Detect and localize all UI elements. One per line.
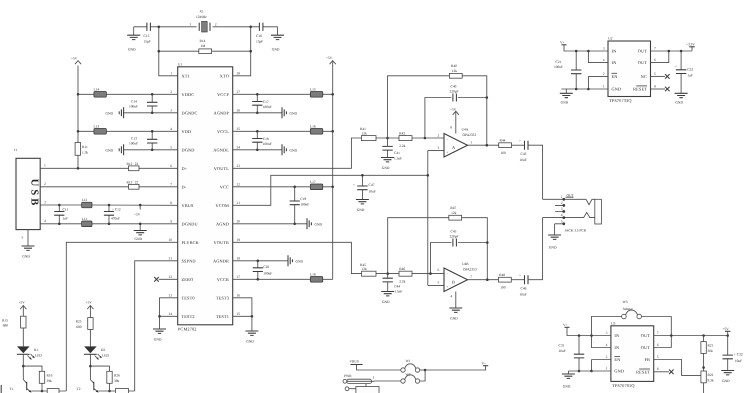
svg-text:R44: R44 [500,139,506,143]
svg-text:D1: D1 [34,348,39,352]
capacitor C19 100nF [290,186,310,226]
svg-text:12k: 12k [451,211,457,215]
svg-text:C46: C46 [521,287,527,291]
svg-text:7: 7 [654,47,656,51]
svg-text:+5V: +5V [326,56,333,60]
svg-text:VDDC: VDDC [182,92,195,97]
power +5V flag (U3 out) [723,327,731,336]
inductor L18 ferrite [233,272,333,282]
svg-text:GND: GND [246,340,254,344]
svg-text:U1: U1 [178,62,183,66]
svg-text:C19: C19 [300,197,306,201]
ground (C15) [127,27,140,52]
svg-text:B: B [452,279,455,284]
svg-text:10uF: 10uF [520,292,527,296]
svg-text:RESET: RESET [636,370,650,375]
svg-text:15: 15 [237,312,241,316]
resistor R25 680 [76,318,93,347]
svg-text:2: 2 [603,72,605,76]
ground (C16) [271,27,284,52]
capacitor C44 1.5nF [383,274,403,294]
node D+ pull-up junction [77,167,80,170]
node LED1/R16 junction [22,365,25,368]
wire USB GND line (pin4) [40,223,178,225]
capacitor C13 100nF [129,130,157,151]
svg-text:7: 7 [170,182,172,186]
svg-text:100nF: 100nF [263,272,272,276]
resistor R13 22 [127,181,140,190]
svg-text:12: 12 [168,275,172,279]
svg-text:J1: J1 [14,148,17,152]
svg-text:C44: C44 [394,284,400,288]
svg-text:EN: EN [612,74,618,79]
wire U2 second IN [587,50,608,63]
svg-text:R14: R14 [200,39,206,43]
svg-text:C14: C14 [131,99,137,103]
resistor R47 12k feedback [388,206,488,274]
svg-text:680: 680 [3,324,9,328]
svg-text:1.5k: 1.5k [82,151,88,155]
svg-text:R25: R25 [76,320,82,324]
svg-text:1.5nF: 1.5nF [394,290,402,294]
wire to V+ flag [425,366,486,370]
svg-text:OPA2353: OPA2353 [463,133,477,137]
crystal X1 [190,10,217,33]
ground (USB shield pin5) [22,230,35,259]
svg-text:5: 5 [654,72,656,76]
ground (U2/C21) [560,89,573,104]
svg-text:OUT: OUT [638,49,648,54]
jumper W1 [401,359,425,372]
svg-text:C22: C22 [687,68,693,72]
ground (AGNDR sideways) [233,255,304,266]
svg-text:R16: R16 [47,373,53,377]
svg-text:OUT: OUT [641,345,651,350]
svg-text:OUT: OUT [567,193,575,197]
svg-text:C45: C45 [451,230,457,234]
svg-text:AGNDP: AGNDP [213,111,229,116]
capacitor C16 [256,23,263,44]
svg-text:L12: L12 [82,198,88,202]
ground (TEST3/TEST1) [245,331,258,344]
svg-text:GND: GND [106,149,114,153]
node inverting input A [424,137,427,140]
svg-text:FB: FB [644,357,650,362]
svg-text:100nF: 100nF [129,142,138,146]
svg-text:NC: NC [641,74,647,79]
svg-text:GND: GND [128,48,136,52]
svg-text:TEST2: TEST2 [182,314,195,319]
svg-text:PCM2702: PCM2702 [178,327,197,332]
svg-text:6: 6 [654,58,656,62]
svg-text:VBUS: VBUS [182,203,195,208]
svg-text:AGNDR: AGNDR [213,259,229,264]
connector jack 3.5mm [543,193,602,232]
svg-text:IN: IN [612,60,617,65]
svg-text:C40: C40 [451,85,457,89]
power +5V (op-amp A) [450,107,459,133]
svg-text:24: 24 [237,145,241,149]
wire SSPND pin11 [135,261,178,391]
svg-text:VCCP: VCCP [217,92,229,97]
node LED2/R26 junction [89,365,92,368]
resistor R48 100 [499,273,525,289]
svg-text:2: 2 [170,90,172,94]
svg-text:2: 2 [606,355,608,359]
svg-text:1: 1 [44,164,46,168]
svg-text:19: 19 [237,238,241,242]
svg-text:+ C32: + C32 [734,352,743,356]
wire U3 RESET no-connect [654,370,674,375]
ground (AGND sideways) [233,218,323,229]
inductor L15 ferrite [233,87,334,97]
capacitor C40 220pF [425,85,488,146]
svg-text:IN: IN [614,345,619,350]
U1 right pin numbers [237,71,241,315]
svg-text:5: 5 [657,355,659,359]
svg-text:PLYBCK: PLYBCK [182,240,200,245]
svg-text:14: 14 [168,312,172,316]
svg-text:1: 1 [190,22,192,26]
svg-text:GND: GND [675,100,683,104]
svg-text:L14: L14 [94,87,100,91]
svg-text:6: 6 [657,343,659,347]
svg-text:T1: T1 [10,387,14,391]
svg-text:+: + [519,274,521,278]
inductor L14 ferrite [78,87,178,97]
wire U3 gnd rail [568,370,611,372]
svg-text:27: 27 [237,90,241,94]
svg-text:+3.3V: +3.3V [686,42,695,46]
capacitor C31 10uF [559,334,585,372]
svg-text:100nF: 100nF [129,105,138,109]
svg-text:16: 16 [237,293,241,297]
svg-text:25: 25 [237,127,241,131]
svg-text:R42: R42 [399,131,405,135]
svg-text:1: 1 [170,71,172,75]
U1 left pin names [182,74,200,320]
resistor R22 9.3k [701,371,714,393]
svg-text:7: 7 [470,275,472,279]
ground (C44) [381,292,394,305]
svg-text:L13: L13 [94,124,100,128]
capacitor C14 100nF [129,93,157,114]
U1 right pin names [213,74,229,320]
svg-text:C43: C43 [521,152,527,156]
svg-text:4: 4 [603,58,605,62]
svg-text:+: + [675,64,677,68]
svg-text:GND: GND [290,149,298,153]
power +5V analog rail [326,56,336,279]
capacitor C18 100nF [252,130,272,151]
svg-text:5: 5 [438,281,440,285]
svg-text:39k: 39k [47,379,53,383]
wire cut-off at left edge [0,385,2,393]
wire U3 EN to gnd rail [590,360,611,373]
svg-text:4: 4 [451,294,453,298]
svg-text:EN: EN [614,357,620,362]
svg-text:2: 2 [44,182,46,186]
svg-text:GND: GND [290,112,298,116]
svg-text:TEST0: TEST0 [182,296,195,301]
svg-text:2.2k: 2.2k [399,144,405,148]
svg-text:1: 1 [606,367,608,371]
svg-text:21: 21 [237,201,241,205]
fuse PWR [343,374,401,383]
inductor L13 ferrite [78,124,178,134]
svg-text:26: 26 [237,108,241,112]
resistor R12 22 [127,162,140,171]
node inverting input B [429,272,432,275]
svg-text:8: 8 [170,201,172,205]
power +3.3V flag [686,42,695,51]
LED D1 [17,346,42,366]
wire USB VBUS line (pin3) [40,204,178,206]
capacitor C32 10uF [723,336,743,371]
wire TEST0/TEST2 to ground [158,298,178,329]
svg-text:3: 3 [438,146,440,150]
svg-text:DGND: DGND [182,148,195,153]
svg-text:R40: R40 [451,64,457,68]
svg-text:DGNDC: DGNDC [182,111,198,116]
svg-text:GND: GND [296,260,304,264]
op-amp U4B OPA2353 [438,262,477,298]
resistor R26 39k [90,366,120,392]
svg-text:13: 13 [168,293,172,297]
ground (C22) [675,93,688,104]
wire op-amp A output [468,144,499,147]
svg-text:VOUTR: VOUTR [213,240,229,245]
svg-text:USB: USB [29,179,40,208]
svg-text:+5V: +5V [450,107,457,111]
capacitor C45 220pF [431,230,489,280]
svg-text:R22: R22 [708,373,714,377]
wire U2 EN to gnd rail [587,76,608,90]
svg-text:R13: R13 [127,181,133,185]
svg-text:U2: U2 [608,37,613,41]
svg-text:L18: L18 [310,272,316,276]
wire USB D- line (pin2) [40,186,178,188]
svg-text:LED: LED [102,353,109,357]
U1 left pin numbers [168,71,172,315]
op-amp U1 main IC PCM2702 [178,62,233,331]
wire USB D+ line (pin1) [40,167,178,169]
svg-text:1nF: 1nF [63,217,69,221]
svg-text:3: 3 [170,108,172,112]
svg-text:1.5nF: 1.5nF [394,156,402,160]
svg-text:R41: R41 [360,127,366,131]
svg-text:15pF: 15pF [256,39,263,43]
svg-text:100nF: 100nF [263,105,272,109]
regulator U3 TPS76701Q [606,321,659,387]
svg-text:8: 8 [654,85,656,89]
wire VOUTR pin19 [233,242,362,273]
svg-text:OPA2353: OPA2353 [463,268,477,272]
svg-text:DGNDU: DGNDU [182,222,199,227]
svg-text:LED: LED [35,353,42,357]
ground (DGNDC pin3 sideways) [106,107,178,118]
svg-text:28: 28 [237,71,241,75]
svg-text:U3: U3 [611,321,616,325]
svg-text:5: 5 [561,219,563,223]
ground (DGND pin5 sideways) [106,144,178,155]
svg-text:R21: R21 [708,344,714,348]
svg-text:4: 4 [606,343,608,347]
svg-text:C20: C20 [263,265,269,269]
regulator U2 TPS76733Q [603,37,656,103]
svg-text:470nF: 470nF [111,217,120,221]
ground (TEST0/TEST2) [153,329,166,342]
svg-text:8: 8 [657,367,659,371]
svg-text:100nF: 100nF [263,142,272,146]
ground (AGNDP sideways) [233,107,298,118]
connector power bottom (cut off) [345,384,379,393]
svg-text:XTO: XTO [220,74,229,79]
J1 pin numbers [22,164,47,240]
power +5V (LED2) [86,300,94,317]
svg-text:ZERO: ZERO [182,277,194,282]
wire U2 gnd rail [561,88,608,90]
svg-text:R46: R46 [399,267,405,271]
capacitor C11 1nF [54,204,68,225]
svg-text:GND: GND [357,208,365,212]
resistor R14 [159,39,251,54]
svg-text:3: 3 [603,47,605,51]
resistor R15 680 [2,316,26,346]
svg-text:U4B: U4B [462,262,469,266]
capacitor C21 100nF [554,50,581,91]
svg-text:GND: GND [612,87,622,92]
svg-text:220pF: 220pF [450,89,459,93]
svg-text:GND: GND [22,255,30,259]
power +5V (LED1) [19,300,27,316]
capacitor C47 10uF (VCOM) [353,174,376,200]
svg-text:4: 4 [561,213,563,217]
svg-text:+5V: +5V [723,327,730,331]
svg-text:9: 9 [170,219,172,223]
wire U2 NC no-connect [651,74,670,79]
svg-text:L16: L16 [310,124,316,128]
svg-text:22: 22 [237,182,241,186]
svg-text:5: 5 [170,145,172,149]
op-amp U4A OPA2353 [438,125,477,157]
svg-text:W3: W3 [623,300,628,304]
ground (U3/C31) [562,371,575,389]
svg-text:D2: D2 [101,348,106,352]
svg-text:TPS76701Q: TPS76701Q [612,383,635,388]
svg-text:GND: GND [450,317,458,321]
svg-text:C18: C18 [263,137,269,141]
svg-text:+5V: +5V [71,56,78,60]
power flag V+ [482,361,489,365]
wire xtal left rail to XTI [159,27,178,76]
svg-text:3: 3 [44,200,46,204]
svg-text:TEST3: TEST3 [216,296,229,301]
svg-text:T2: T2 [77,387,81,391]
wire U3 OUT to +5V [654,334,729,347]
resistor R11 1.5k pull-up [75,66,88,169]
svg-text:VCC: VCC [220,185,229,190]
wire U3 second IN [590,334,611,347]
svg-text:18: 18 [237,256,241,260]
power V+ (U3 input) [563,323,611,336]
svg-text:L17: L17 [310,180,316,184]
svg-text:4: 4 [170,127,172,131]
power flag VBUS [350,360,401,371]
svg-text:W2: W2 [406,373,411,377]
svg-text:X1: X1 [200,10,205,14]
svg-text:10uF: 10uF [559,349,566,353]
svg-text:+: + [446,151,448,155]
resistor R42 2.2k [399,131,444,147]
svg-text:RESET: RESET [633,87,647,92]
svg-text:6: 6 [438,268,440,272]
node A (filter node L) [386,137,389,140]
svg-text:2: 2 [438,134,440,138]
svg-text:1: 1 [603,85,605,89]
capacitor C17 100nF [252,93,272,114]
ground (USB gnd line) [134,223,147,241]
svg-text:12MHz: 12MHz [196,15,207,19]
svg-text:VCCL: VCCL [217,129,229,134]
svg-text:VOUTL: VOUTL [214,166,230,171]
svg-text:IN: IN [614,333,619,338]
svg-text:PWR: PWR [344,374,352,378]
jumper W3 [592,300,672,336]
svg-text:220pF: 220pF [450,234,459,238]
resistor R45 12k [360,263,399,276]
wire U3 FB to divider [654,360,705,376]
wire op-amp B output [468,278,499,281]
svg-text:D+: D+ [182,166,188,171]
svg-text:VDD: VDD [182,129,192,134]
svg-text:2.2k: 2.2k [399,279,405,283]
ground (C41) [381,158,394,171]
transistor T2 [75,366,98,393]
svg-text:+5V: +5V [86,300,93,304]
svg-text:L15: L15 [310,87,316,91]
svg-text:17: 17 [237,275,241,279]
svg-text:AGND: AGND [216,222,229,227]
wire base rail with resistor (T1) [31,389,66,393]
resistor R21 30k [701,336,714,372]
svg-text:SSPND: SSPND [182,259,196,264]
svg-text:D-: D- [182,185,187,190]
node rail-L14 / rail-L13 [77,93,80,96]
svg-text:GND: GND [549,246,557,250]
svg-text:Jumper: Jumper [623,307,634,311]
svg-text:R26: R26 [114,373,120,377]
ground (op-amp B power pin4) [449,292,462,321]
svg-text:1: 1 [561,195,563,199]
wire PLYBCK pin10 [66,242,177,391]
connector J1 USB [14,148,40,229]
svg-text:TPS76733Q: TPS76733Q [609,98,632,103]
inductor L16 ferrite [233,124,334,134]
inductor L11 ferrite [82,217,92,227]
svg-text:C31: C31 [559,343,565,347]
wire TEST3/TEST1 to ground [233,298,254,331]
wire xtal right rail to XTO [233,27,251,76]
svg-text:IN: IN [612,49,617,54]
ground (jack sleeve) [548,224,561,250]
resistor R41 12k [360,127,399,140]
svg-text:C17: C17 [263,100,269,104]
svg-text:R48: R48 [499,273,505,277]
svg-text:10uF: 10uF [735,359,742,363]
svg-text:R47: R47 [450,206,456,210]
svg-text:VBUS: VBUS [350,360,359,364]
